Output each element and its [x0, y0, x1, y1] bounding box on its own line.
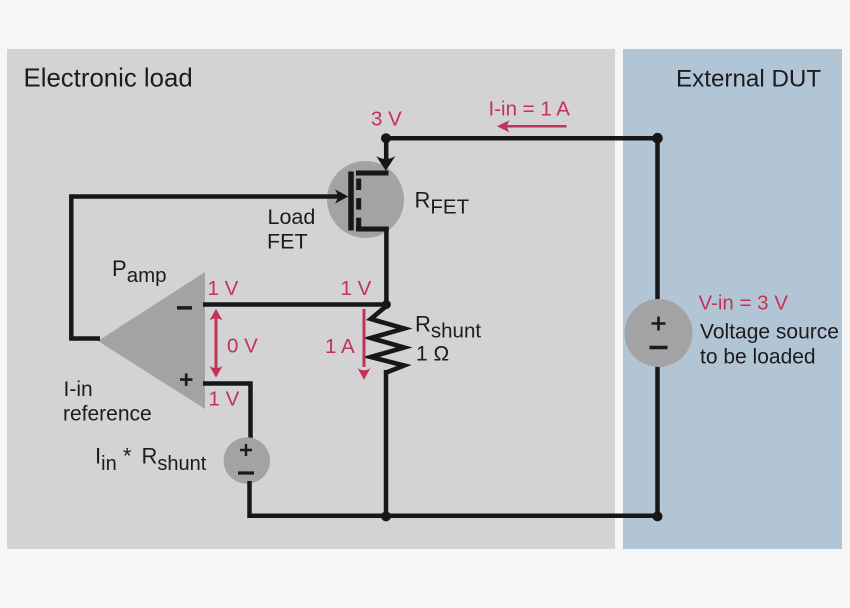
svg-text:to be loaded: to be loaded	[700, 346, 816, 369]
svg-text:3 V: 3 V	[371, 108, 402, 131]
wire top run to DUT	[384, 138, 658, 301]
svg-text:I-in: I-in	[64, 378, 93, 401]
svg-text:0 V: 0 V	[227, 335, 258, 358]
wire reference source to bottom run	[250, 481, 660, 516]
svg-text:Load: Load	[268, 205, 316, 229]
wire non-inverting input to reference source	[203, 384, 251, 440]
source Vref plus	[240, 444, 252, 456]
svg-text:FET: FET	[267, 229, 308, 253]
svg-text:External DUT: External DUT	[676, 66, 821, 93]
op-amp non-inverting input marker	[180, 373, 193, 386]
source V-in plus	[652, 317, 666, 331]
voltage arrow 0 V double	[210, 309, 223, 378]
op-amp inverting input marker	[177, 306, 192, 310]
op-amp U1 body	[98, 272, 205, 409]
svg-text:1 V: 1 V	[209, 388, 240, 411]
svg-text:1 A: 1 A	[325, 335, 355, 358]
node DUT top corner	[652, 133, 663, 144]
resistor Rshunt zigzag	[371, 304, 404, 373]
svg-text:V-in = 3 V: V-in = 3 V	[699, 292, 789, 315]
wire drain stub	[384, 136, 389, 160]
wire op-amp output to FET gate	[71, 197, 341, 339]
wire inverting input to shunt top	[203, 302, 387, 307]
panel External DUT	[623, 49, 842, 549]
transistor Q1 background circle	[327, 161, 404, 238]
node DUT bottom junction	[653, 511, 663, 521]
node drain junction	[381, 133, 391, 143]
svg-text:I-in = 1 A: I-in = 1 A	[489, 98, 571, 121]
svg-text:Voltage source: Voltage source	[700, 321, 839, 344]
transistor Q1 gate bar	[348, 172, 354, 231]
svg-text:1 V: 1 V	[208, 277, 239, 300]
source V-in minus	[650, 346, 668, 350]
panel Electronic load	[7, 49, 615, 549]
source Vref minus	[238, 471, 254, 474]
svg-text:1 V: 1 V	[341, 277, 372, 300]
drain arrowhead	[376, 156, 395, 171]
current arrow 1 A	[358, 309, 371, 380]
svg-text:Electronic load: Electronic load	[24, 65, 193, 93]
current arrow I-in	[497, 120, 567, 132]
svg-text:reference: reference	[63, 403, 152, 426]
source V-in circle	[625, 299, 693, 367]
transistor Q1 source arm	[356, 227, 389, 232]
svg-text:1 Ω: 1 Ω	[416, 343, 449, 366]
wire FET source to shunt	[384, 227, 389, 306]
node shunt top junction	[382, 300, 391, 309]
transistor Q1 channel dashed line	[356, 179, 361, 231]
wire shunt bottom	[384, 370, 389, 518]
wire DUT bottom vertical	[655, 366, 660, 519]
gate arrowhead	[335, 189, 348, 204]
source Vref circle	[224, 437, 270, 483]
transistor Q1 drain arm	[356, 171, 389, 176]
node shunt bottom junction	[381, 511, 391, 521]
